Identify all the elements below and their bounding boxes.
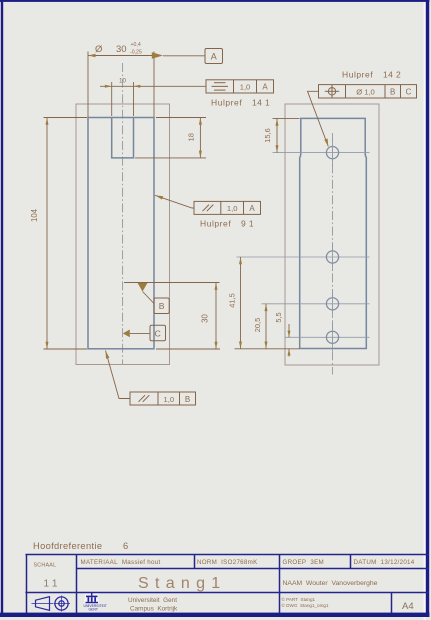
dimension 10 arrows (105, 85, 112, 88)
bottom extension right view (235, 348, 300, 350)
svg-text:Campus Kortrijk: Campus Kortrijk (130, 606, 178, 613)
sheet border right (426, 0, 429, 617)
hole 4 (326, 331, 338, 343)
fcf parallel mid texts (227, 204, 255, 213)
datum A box (205, 49, 223, 64)
svg-text:GROEP 3EM: GROEP 3EM (283, 559, 325, 566)
dimension 10 extension lines (111, 82, 113, 116)
svg-text:C: C (155, 329, 161, 339)
dimension 18 line (199, 118, 201, 158)
svg-text:© PART Stang1: © PART Stang1 (282, 596, 316, 602)
svg-text:B: B (390, 87, 395, 96)
sheet border top (0, 0, 429, 2)
dimension 20,5 line (265, 304, 267, 349)
dimension 18 extension lines (156, 117, 206, 119)
dimension 15,6 extension top (273, 117, 300, 119)
svg-text:MATERIAAL Massief hout: MATERIAAL Massief hout (81, 559, 161, 566)
hole 3 (326, 298, 338, 310)
svg-text:Stang1: Stang1 (138, 575, 227, 592)
dimension 30 extension line bottom (156, 348, 220, 350)
svg-text:41,5: 41,5 (228, 293, 237, 307)
svg-text:B: B (185, 395, 190, 404)
hole line 2 (237, 256, 370, 258)
dimension 5,5 lines (288, 324, 290, 337)
svg-text:1,0: 1,0 (164, 395, 175, 404)
datum C leader (130, 332, 150, 334)
centerline left view (122, 63, 124, 364)
svg-text:Hoofdreferentie: Hoofdreferentie (33, 541, 102, 551)
svg-text:DATUM 13/12/2014: DATUM 13/12/2014 (354, 559, 415, 566)
title block texts row1 (34, 559, 415, 569)
svg-text:GENT: GENT (89, 608, 98, 612)
hole line 3 (262, 303, 370, 305)
svg-text:1,0: 1,0 (240, 83, 251, 92)
svg-text:9 1: 9 1 (241, 219, 254, 229)
svg-text:A: A (249, 204, 255, 213)
hole 2 (326, 251, 338, 263)
datum B triangle (138, 283, 148, 292)
svg-text:NORM ISO2768mK: NORM ISO2768mK (197, 559, 258, 566)
fcf symmetry texts (240, 83, 269, 92)
dimension D30 left arrow (88, 54, 96, 57)
datum A leader (163, 55, 205, 57)
dimension D30 text (95, 42, 142, 56)
datum A triangle on D30 (152, 52, 163, 59)
sheet border bottom (0, 613, 429, 617)
svg-text:A: A (262, 83, 268, 92)
hole line 1 (273, 152, 370, 154)
dimension 104 line (46, 118, 48, 350)
svg-text:14 1: 14 1 (252, 98, 270, 108)
dimension 10 line (100, 85, 206, 87)
svg-text:15,6: 15,6 (263, 128, 272, 142)
svg-text:© DWG Stang1_omg1: © DWG Stang1_omg1 (282, 602, 329, 608)
svg-text:-0,25: -0,25 (130, 50, 142, 56)
svg-text:+0,4: +0,4 (131, 42, 141, 48)
svg-text:Hulpref: Hulpref (211, 98, 242, 108)
fcf position leader (308, 91, 329, 146)
sheet border left (1, 0, 3, 617)
svg-text:1,0: 1,0 (227, 204, 238, 213)
part outline right view (300, 118, 367, 348)
dimension 30 extension line top (124, 282, 220, 284)
svg-text:Hulpref: Hulpref (342, 70, 373, 80)
title block lines (25, 555, 429, 614)
stock outline right view (285, 104, 379, 365)
svg-text:SCHAAL: SCHAAL (34, 563, 57, 569)
svg-text:NAAM Wouter Vanoverberghe: NAAM Wouter Vanoverberghe (283, 580, 378, 587)
datum B leader (143, 292, 155, 304)
datum C box (150, 325, 166, 340)
svg-text:20,5: 20,5 (253, 318, 262, 332)
centerline right view (332, 133, 334, 375)
dimension 41,5 line (240, 257, 242, 349)
svg-text:6: 6 (123, 541, 128, 551)
page edge white strip right (424, 0, 426, 620)
svg-text:Ø: Ø (95, 44, 103, 55)
svg-text:Universiteit Gent: Universiteit Gent (128, 597, 177, 604)
hole 1 (326, 147, 338, 159)
dimension 104 extension lines (44, 117, 88, 119)
part outline left view (88, 118, 154, 349)
datum B box (154, 298, 169, 314)
svg-text:14 2: 14 2 (383, 70, 401, 80)
svg-text:Ø 1,0: Ø 1,0 (356, 87, 375, 96)
dimension 30 line (215, 283, 217, 350)
svg-text:Hulpref: Hulpref (200, 219, 231, 229)
svg-text:30: 30 (201, 314, 210, 323)
fcf parallel mid frame (194, 201, 261, 214)
svg-text:104: 104 (30, 208, 39, 222)
fcf parallel bottom frame (130, 392, 196, 405)
svg-text:1 1: 1 1 (44, 579, 58, 590)
dimension D30 extension lines (87, 52, 89, 118)
slot left view (112, 118, 134, 158)
dimension 15,6 line (276, 118, 278, 152)
fcf parallel mid leader (155, 195, 194, 208)
stock outline left view (76, 104, 170, 365)
svg-text:C: C (406, 87, 412, 96)
svg-text:A: A (211, 52, 217, 62)
svg-text:30: 30 (116, 44, 127, 55)
fcf position frame (319, 85, 417, 98)
svg-text:18: 18 (187, 133, 196, 141)
fcf parallel bottom texts (164, 395, 191, 404)
ghent university logo (84, 593, 107, 612)
datum C triangle (123, 330, 130, 338)
fcf position texts (356, 87, 411, 96)
fcf symmetry frame (206, 80, 274, 93)
projection symbol (32, 596, 71, 612)
dimension D30 line (88, 55, 154, 57)
svg-text:10: 10 (119, 78, 127, 85)
fcf parallel bottom leader (106, 351, 131, 399)
svg-text:B: B (159, 301, 165, 311)
svg-text:5,5: 5,5 (274, 312, 283, 322)
svg-text:A4: A4 (402, 601, 414, 612)
hole line 4 (285, 336, 370, 338)
